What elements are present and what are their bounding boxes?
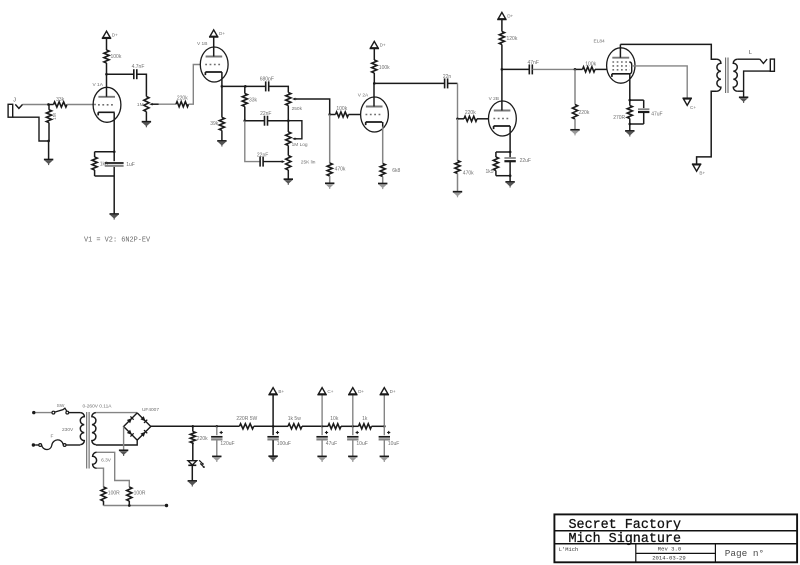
node D+ rail 2 — [383, 425, 386, 428]
svg-text:D+: D+ — [507, 14, 513, 19]
svg-text:D+: D+ — [219, 31, 225, 36]
resistor 1M input — [48, 105, 50, 110]
wire to ground — [48, 141, 50, 160]
wire 250k bottom — [287, 106, 289, 121]
ground bridge — [119, 449, 128, 451]
power D+ V2B — [498, 12, 505, 18]
wire fuse to primary — [66, 444, 80, 446]
node C+ rail — [321, 425, 324, 428]
node EL84 cathode — [628, 99, 631, 102]
ground 10uF filter 1 — [348, 455, 357, 457]
transformer PT HV secondary — [92, 413, 96, 445]
node V2B plate — [501, 68, 504, 71]
svg-text:1M: 1M — [137, 102, 144, 108]
wire 22n to V2B grid node — [448, 82, 458, 84]
wire V1B cathode down — [222, 72, 245, 86]
resistor 100R heater b — [127, 487, 132, 501]
power D+ filter 1 — [349, 388, 356, 394]
wire wiper to 220k — [159, 103, 176, 105]
svg-text:220k: 220k — [197, 436, 208, 442]
wire V1A cathode gnd — [113, 176, 115, 214]
resistor 220k V2B grid — [458, 118, 465, 120]
capacitor 47uF filter — [321, 426, 323, 435]
svg-text:22nF: 22nF — [260, 111, 271, 117]
power D+ filter 2 — [381, 388, 388, 394]
svg-text:SW: SW — [57, 403, 65, 409]
wire bridge plus to rail — [151, 425, 193, 427]
wire 47nF to EL84 node — [533, 68, 576, 70]
resistor 1k5 V2B cathode — [495, 152, 497, 157]
node B+ rail — [272, 425, 275, 428]
wire C+ up — [321, 395, 323, 427]
svg-text:220k: 220k — [177, 95, 188, 101]
resistor 220k EL84 grid leak — [574, 69, 576, 104]
resistor 100R heater a — [101, 487, 106, 501]
capacitor 22uF — [509, 152, 511, 157]
node D+ rail 1 — [351, 425, 354, 428]
svg-text:V 1A: V 1A — [93, 82, 104, 88]
resistor 220k V1B grid — [176, 102, 189, 107]
capacitor 1uF V1A — [113, 152, 115, 162]
capacitor 22nF mid — [264, 116, 266, 126]
resistor 6k8 V2A cathode — [382, 126, 384, 164]
svg-text:B+: B+ — [278, 389, 284, 394]
svg-text:V 1B: V 1B — [197, 41, 207, 47]
wire V2B plate up — [501, 69, 503, 101]
capacitor 47uF EL84 — [643, 100, 645, 108]
wire jack sleeve — [13, 117, 49, 141]
svg-text:D+: D+ — [358, 389, 364, 394]
node slope bottom — [243, 119, 246, 122]
resistor 1k filter — [353, 425, 359, 427]
svg-text:10uF: 10uF — [356, 441, 367, 447]
svg-text:V1 = V2: 6N2P-EV: V1 = V2: 6N2P-EV — [84, 237, 151, 245]
svg-text:25K lin: 25K lin — [301, 160, 316, 166]
power D+ V1B — [210, 30, 217, 36]
svg-text:47uF: 47uF — [651, 111, 662, 117]
wire treble wiper to grid node — [296, 99, 330, 115]
resistor 100k V2A grid — [330, 114, 336, 116]
svg-text:4.7nF: 4.7nF — [132, 64, 145, 70]
node V2B cathode — [509, 151, 512, 154]
svg-text:1M: 1M — [52, 113, 58, 120]
wiper mid — [282, 160, 285, 163]
wire V1A plate up — [106, 74, 108, 87]
svg-text:EL84: EL84 — [594, 38, 606, 44]
node 120uF — [215, 425, 218, 428]
svg-text:0-260V 0.11A: 0-260V 0.11A — [83, 404, 113, 410]
wire mains top — [36, 412, 53, 414]
svg-text:C+: C+ — [327, 389, 333, 394]
wire cathode rail top V1A — [95, 151, 115, 153]
svg-text:39k: 39k — [210, 121, 219, 127]
svg-text:6k8: 6k8 — [392, 168, 400, 174]
svg-text:120uF: 120uF — [220, 441, 234, 447]
node input grid — [47, 103, 50, 106]
wire EL84 plate to OT — [620, 44, 717, 59]
svg-text:F: F — [51, 434, 54, 440]
LED indicator — [188, 461, 197, 465]
wire cathode rail bottom V1A — [95, 175, 115, 177]
wire bass cap to wiper — [263, 161, 281, 163]
svg-text:100R: 100R — [134, 491, 146, 497]
svg-text:22nF: 22nF — [257, 153, 268, 159]
wire V2A cathode — [382, 122, 384, 127]
svg-text:B+: B+ — [699, 171, 705, 176]
mains terminal top — [32, 411, 35, 414]
svg-text:47uF: 47uF — [326, 441, 337, 447]
wire bass cap branch — [245, 121, 260, 162]
wiper treble — [292, 98, 295, 101]
svg-text:L: L — [749, 50, 752, 56]
wire V2A plate up — [373, 83, 375, 97]
wire V2B cathode down — [509, 126, 511, 152]
svg-text:220k: 220k — [579, 110, 590, 116]
resistor 10k filter — [322, 425, 328, 427]
svg-text:100k: 100k — [336, 106, 347, 112]
resistor 470k V2B grid leak — [457, 119, 459, 161]
ground volume pot — [142, 121, 151, 123]
wire heater top — [97, 452, 130, 487]
node heater rail — [128, 504, 131, 507]
ground OT secondary — [739, 96, 748, 98]
svg-text:J: J — [13, 98, 16, 104]
ground input jack — [44, 159, 53, 161]
svg-text:33k: 33k — [249, 97, 258, 103]
ground EL84 cathode — [629, 124, 631, 131]
wire bass to 25K — [287, 146, 289, 156]
svg-text:UF4007: UF4007 — [142, 407, 159, 413]
wire jack sleeve to gnd — [744, 71, 771, 97]
node cathode rail gnd — [509, 174, 512, 177]
resistor 470k V2A grid leak — [329, 115, 331, 164]
wire heater bottom — [97, 468, 104, 487]
resistor 1k8 V1A cathode — [94, 152, 96, 157]
svg-text:V 2B: V 2B — [489, 96, 499, 102]
node V2A plate — [373, 82, 376, 85]
svg-text:1k 5w: 1k 5w — [288, 416, 301, 422]
potentiometer 1M log bass — [286, 132, 291, 146]
svg-text:47nF: 47nF — [527, 60, 538, 66]
title block — [554, 514, 797, 562]
wire 680pF to 250k — [269, 86, 288, 92]
transformer OT — [717, 59, 721, 91]
ground 22uF — [509, 176, 511, 182]
node bleeder-LED — [192, 442, 194, 444]
svg-text:1M Log: 1M Log — [292, 142, 308, 148]
svg-text:Mich Signature: Mich Signature — [569, 532, 682, 547]
power D+ V1A — [103, 31, 110, 37]
resistor 120k V2B plate — [501, 20, 503, 32]
svg-text:6.3V: 6.3V — [101, 457, 112, 463]
svg-text:100k: 100k — [585, 62, 596, 68]
node V1A cathode — [113, 150, 116, 153]
capacitor 680pF — [265, 81, 267, 91]
power B+ OT — [692, 163, 701, 165]
wire cathode rail bottom — [496, 175, 510, 177]
ground 25K lin — [284, 178, 293, 180]
svg-text:1k5: 1k5 — [485, 169, 493, 175]
wire volume pot to ground — [145, 112, 147, 122]
node V2B grid — [456, 117, 459, 120]
ground 39k — [217, 140, 226, 142]
svg-text:120k: 120k — [507, 36, 518, 42]
svg-text:220R 5W: 220R 5W — [236, 416, 257, 422]
terminal heater rail — [165, 504, 168, 507]
node sleeve-gnd — [47, 140, 50, 143]
svg-text:230V: 230V — [62, 427, 74, 433]
wire HV bottom to bridge — [96, 440, 137, 445]
resistor 33k input — [49, 104, 54, 106]
svg-text:Page n°: Page n° — [725, 548, 764, 559]
node tone mid right — [287, 119, 290, 122]
wire plate to 47nF — [502, 68, 529, 70]
svg-text:100uF: 100uF — [277, 441, 291, 447]
power C+ filter — [318, 388, 325, 394]
node V1B cathode — [221, 85, 224, 88]
ground LED — [188, 480, 197, 482]
wire 220k to V1B grid — [189, 65, 201, 105]
wire mains bottom — [35, 444, 39, 446]
node EL84 cathode gnd — [628, 123, 631, 126]
transformer PT primary — [80, 413, 84, 445]
wire bridge minus to gnd — [123, 427, 125, 451]
resistor 100k V2A plate — [373, 48, 375, 60]
node V2A grid — [328, 113, 331, 116]
resistor 33k slope — [244, 86, 246, 93]
node bleeder — [191, 425, 194, 428]
transformer heater winding — [93, 452, 97, 468]
ground 100uF — [268, 455, 277, 457]
capacitor 100uF — [272, 426, 274, 435]
svg-text:2014-03-29: 2014-03-29 — [652, 554, 686, 561]
ground 470k V2A — [325, 182, 334, 184]
ground V1A cathode — [110, 213, 119, 215]
wire slope to mid cap — [245, 120, 264, 122]
capacitor 4.7nF — [133, 69, 135, 79]
svg-text:1uF: 1uF — [126, 162, 135, 168]
wire EL84 cathode down — [629, 74, 631, 100]
capacitor 22nF bass — [259, 157, 261, 167]
ground 47uF filter — [317, 455, 326, 457]
mains terminal bottom — [32, 443, 35, 446]
node EL84 grid — [574, 68, 577, 71]
wire cathode cap bottom — [630, 123, 644, 125]
node treble top — [244, 85, 247, 88]
resistor 220k bleeder — [192, 426, 194, 431]
power C+ screen — [683, 97, 692, 99]
svg-text:33k: 33k — [56, 97, 65, 103]
wire cap to volume pot — [137, 74, 146, 96]
resistor 100k V1A plate — [106, 38, 108, 50]
svg-text:C+: C+ — [690, 105, 696, 110]
capacitor 10uF filter 2 — [383, 426, 385, 435]
wire V1A cathode down — [113, 113, 115, 152]
svg-text:100R: 100R — [108, 491, 120, 497]
svg-text:22n: 22n — [443, 74, 452, 80]
wire 25K to ground — [287, 170, 289, 179]
svg-text:D+: D+ — [380, 43, 386, 48]
wire B+ up — [272, 395, 274, 427]
wire V1B plate to D+ — [213, 37, 215, 47]
svg-text:10uF: 10uF — [388, 441, 399, 447]
wire D+2 up — [383, 395, 385, 427]
power D+ V2A — [371, 41, 378, 47]
capacitor 47nF — [528, 64, 530, 74]
wire 33k to V1A grid — [67, 104, 96, 106]
svg-text:Secret Factory: Secret Factory — [569, 518, 682, 533]
power B+ filter — [269, 388, 276, 394]
svg-text:470k: 470k — [335, 167, 346, 173]
resistor 220R 5W — [217, 425, 240, 427]
potentiometer 25K lin mid — [286, 156, 291, 171]
capacitor 10uF filter 1 — [352, 426, 354, 435]
wire OT primary bottom to B+ — [697, 91, 717, 164]
wire node to bass pot — [287, 121, 289, 132]
wire switch to primary — [69, 412, 81, 414]
svg-text:22uF: 22uF — [520, 158, 531, 164]
wire D+1 up — [352, 395, 354, 427]
svg-text:250k: 250k — [292, 106, 303, 112]
svg-text:100k: 100k — [111, 54, 122, 60]
wire heater rail — [104, 505, 167, 507]
potentiometer 1M volume — [144, 97, 149, 112]
resistor 100k EL84 grid — [575, 68, 583, 70]
wire plate to cap — [107, 73, 134, 75]
wire cathode cap top — [630, 99, 644, 101]
potentiometer 250k treble — [286, 93, 291, 106]
svg-text:100k: 100k — [379, 65, 390, 71]
svg-text:V 2A: V 2A — [358, 92, 369, 98]
svg-text:10k: 10k — [330, 416, 339, 422]
ground 6k8 — [378, 183, 387, 185]
resistor 270R EL84 cathode — [629, 100, 631, 105]
capacitor 120uF — [216, 426, 218, 435]
ground 10uF filter 2 — [380, 455, 389, 457]
wiper volume — [149, 103, 152, 106]
ground 470k V2B — [453, 191, 462, 193]
resistor 39k V1B cathode — [221, 86, 223, 117]
svg-text:D+: D+ — [390, 389, 396, 394]
ground 220k EL84 — [570, 129, 579, 131]
svg-text:D+: D+ — [112, 33, 118, 38]
ground 120uF — [212, 455, 221, 457]
wire mid cap to node — [268, 120, 289, 122]
resistor 1k 5w — [273, 425, 288, 427]
transformer PT core — [86, 412, 88, 469]
wire EL84 screen — [632, 66, 688, 98]
svg-text:220k: 220k — [465, 110, 476, 116]
wire OT secondary top to jack — [737, 58, 760, 60]
node V1A plate — [105, 73, 108, 76]
svg-text:270R: 270R — [613, 115, 625, 121]
wire rail a — [193, 425, 217, 427]
svg-text:1k: 1k — [362, 416, 368, 422]
wire cathode rail top — [496, 151, 510, 153]
svg-text:Rev 3.0: Rev 3.0 — [658, 546, 682, 553]
wire to 680pF — [245, 85, 265, 87]
capacitor 22n — [444, 78, 446, 88]
svg-text:680pF: 680pF — [260, 77, 274, 83]
wiper bass loop — [292, 137, 295, 140]
svg-text:L'Mich: L'Mich — [559, 547, 578, 553]
wire plate to 22n — [374, 82, 444, 84]
wire input jack tip to grid node — [23, 104, 49, 106]
wire OT secondary bottom — [737, 90, 743, 92]
svg-text:470k: 470k — [463, 171, 474, 177]
wire HV top to bridge — [96, 412, 137, 414]
